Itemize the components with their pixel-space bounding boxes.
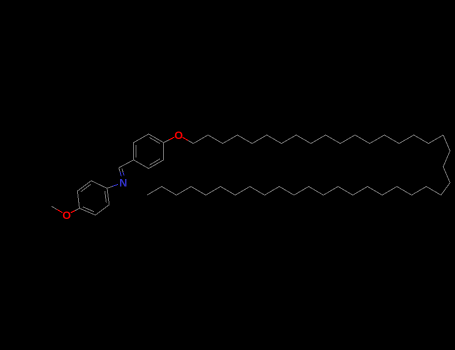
benzene ring right (4-alkoxyphenyl) — [134, 134, 164, 169]
alkyl chain bottom row — [147, 187, 441, 196]
bond O(left) to methyl CH3 — [57, 210, 63, 213]
bond ring to CH — [119, 160, 134, 168]
svg-text:O: O — [174, 130, 183, 142]
benzene ring left (4-methoxyphenyl) — [77, 181, 109, 215]
C=N double bond — [119, 168, 120, 172]
bond O(left) to ring — [71, 211, 75, 213]
chain fold at right edge — [441, 135, 450, 195]
bond N to left ring — [113, 184, 118, 186]
bond O(right) to chain C1 — [183, 137, 188, 140]
left ring aromatic inner double bonds — [105, 191, 107, 202]
svg-text:N: N — [119, 177, 127, 189]
svg-text:O: O — [62, 210, 71, 222]
bond O(right) to ring carbon — [169, 137, 175, 140]
alkyl chain top row — [193, 135, 443, 144]
right ring aromatic inner double bonds — [150, 138, 160, 144]
